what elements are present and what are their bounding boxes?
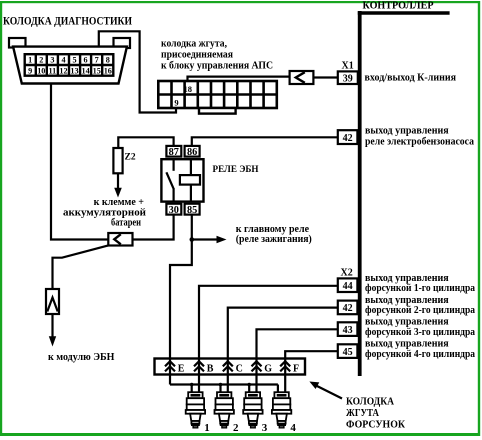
svg-text:E: E [178, 363, 185, 374]
svg-text:8: 8 [106, 56, 110, 65]
svg-text:колодка жгута,: колодка жгута, [161, 39, 227, 50]
svg-text:42: 42 [343, 133, 353, 144]
relay pin 86 [185, 146, 200, 157]
svg-text:4: 4 [290, 422, 296, 434]
junction on pin 85 wire [190, 237, 195, 242]
svg-text:18: 18 [183, 84, 192, 94]
svg-text:42: 42 [343, 303, 353, 314]
relay coil [190, 159, 192, 175]
svg-text:30: 30 [169, 205, 179, 216]
junction bus / injector 3 [247, 383, 251, 387]
svg-text:форсункой 2-го цилиндра: форсункой 2-го цилиндра [365, 305, 475, 316]
svg-text:3: 3 [50, 56, 54, 65]
svg-text:43: 43 [343, 325, 353, 336]
injector 3 [243, 392, 262, 423]
injector 4 [272, 392, 291, 423]
svg-text:батареи: батареи [111, 218, 141, 229]
svg-text:10: 10 [37, 67, 45, 76]
arrow to battery + terminal [114, 188, 122, 198]
direction arrow symbol (K-line) [290, 71, 314, 84]
connector APS harness block [158, 81, 276, 108]
pin 42 controller (fuel pump relay control) [338, 130, 358, 144]
svg-text:9: 9 [28, 67, 32, 76]
injector supply bus [170, 383, 278, 385]
wire: arrow to controller pin 39 [313, 76, 337, 78]
wire: bus to injector 2 supply lead [219, 385, 221, 393]
svg-text:КОЛОДКА ДИАГНОСТИКИ: КОЛОДКА ДИАГНОСТИКИ [3, 14, 133, 28]
pin 45 controller X2 [338, 344, 358, 358]
direction arrow symbol on pin30 supply wire [108, 233, 132, 246]
connector XS1 diagnostic block: left ear [9, 38, 26, 48]
relay switch contact [173, 159, 175, 171]
svg-text:6: 6 [84, 56, 88, 65]
controller outline vertical [358, 11, 362, 376]
wire: bus to injector 3 supply lead [248, 385, 250, 393]
fuse Z2 [113, 148, 122, 173]
svg-text:C: C [236, 363, 243, 374]
svg-text:86: 86 [187, 147, 197, 158]
controller outline top [358, 11, 450, 15]
wire: XS1 pin11 down to K-line arrow [51, 84, 108, 240]
svg-text:87: 87 [169, 147, 179, 158]
pin 44 controller X2 [338, 278, 358, 292]
svg-text:B: B [207, 363, 214, 374]
svg-text:45: 45 [343, 347, 353, 358]
svg-text:13: 13 [70, 67, 78, 76]
svg-text:X2: X2 [341, 268, 353, 279]
relay pin 30 [166, 204, 181, 215]
injector 2 [215, 392, 234, 423]
wire: controller pin 45 to injector 4 rail pin [285, 351, 338, 358]
wire: relay pin 86 to controller pin 42 [192, 137, 338, 146]
connector XS1 diagnostic block: body [13, 47, 127, 84]
border frame bottom [0, 433, 480, 436]
fuse to EBN module [46, 289, 59, 314]
svg-text:39: 39 [343, 74, 353, 85]
wire: APS pin18 to K-line direction arrow [188, 77, 290, 81]
svg-text:44: 44 [343, 281, 353, 292]
injector 1 [186, 392, 205, 423]
svg-text:реле электробензонасоса: реле электробензонасоса [365, 136, 474, 147]
rail pin C [227, 359, 229, 375]
svg-text:выход управления: выход управления [365, 125, 449, 136]
APS block bottom tab [199, 108, 236, 114]
svg-text:F: F [293, 363, 299, 374]
border frame left [0, 1, 2, 436]
svg-text:14: 14 [82, 67, 90, 76]
svg-text:форсункой 1-го цилиндра: форсункой 1-го цилиндра [365, 283, 475, 294]
svg-text:вход/выход К-линия: вход/выход К-линия [365, 72, 457, 83]
wire: controller pin 44 to injector 1 rail pin [199, 286, 338, 359]
wire: controller pin 42 to injector 2 rail pin [228, 308, 338, 359]
wire: branch to main relay with arrow [192, 238, 218, 240]
svg-text:РЕЛЕ ЭБН: РЕЛЕ ЭБН [213, 164, 259, 175]
svg-text:к блоку управления АПС: к блоку управления АПС [161, 60, 273, 71]
svg-text:3: 3 [262, 422, 268, 434]
pin 43 controller X2 [338, 322, 358, 336]
svg-text:форсункой 3-го цилиндра: форсункой 3-го цилиндра [365, 327, 475, 338]
svg-text:X1: X1 [342, 61, 354, 72]
wire: battery fuse Z2 to relay pin 87 [118, 137, 173, 148]
wire: XS1 pin7 top to APS harness block pin 9 [99, 31, 176, 112]
svg-text:15: 15 [93, 67, 101, 76]
wire: rail pin E to injector supply bus [169, 375, 171, 385]
svg-text:Z2: Z2 [125, 153, 136, 163]
relay K1 body [161, 159, 203, 201]
junction bus / injector 2 [219, 383, 223, 387]
pin 39 controller [338, 71, 358, 84]
pin 42 controller X2 [338, 301, 358, 315]
svg-text:к клемме +: к клемме + [94, 197, 145, 208]
svg-text:к модулю ЭБН: к модулю ЭБН [48, 352, 115, 363]
connector injector harness rail [155, 359, 306, 375]
wire: rail pin to injector 4 signal lead [284, 375, 286, 393]
wire: branch to EBN module fuse [53, 245, 109, 289]
arrow pointing to injector rail [315, 385, 342, 399]
svg-text:85: 85 [187, 205, 197, 216]
wire: bus to injector 4 supply lead [277, 385, 279, 393]
svg-text:G: G [264, 363, 272, 374]
svg-text:4: 4 [61, 56, 65, 65]
wire: rail pin to injector 3 signal lead [255, 375, 257, 393]
svg-text:16: 16 [104, 67, 112, 76]
wire: relay pin 85 down to injector rail pin E [170, 215, 192, 359]
svg-text:КОЛОДКА: КОЛОДКА [346, 396, 394, 408]
svg-text:2: 2 [233, 422, 239, 434]
svg-text:7: 7 [95, 56, 99, 65]
svg-text:11: 11 [49, 67, 57, 76]
svg-text:1: 1 [28, 56, 32, 65]
svg-text:ЖГУТА: ЖГУТА [346, 407, 379, 419]
relay pin 85 [185, 204, 200, 215]
junction bus / injector 1 [190, 383, 194, 387]
svg-text:1: 1 [204, 422, 210, 434]
wire: rail pin to injector 2 signal lead [227, 375, 229, 393]
rail pin E [169, 359, 171, 375]
svg-text:(реле зажигания): (реле зажигания) [236, 234, 312, 245]
svg-text:12: 12 [59, 67, 67, 76]
connector XS1 pin grid [25, 54, 114, 75]
wire: fuse Z2 down to battery arrow [117, 173, 119, 188]
rail pin B [198, 359, 200, 375]
wire: rail pin to injector 1 signal lead [198, 375, 200, 393]
border frame top [0, 1, 480, 3]
connector XS1 diagnostic block: right ear [114, 38, 131, 48]
svg-text:9: 9 [174, 97, 178, 107]
svg-text:2: 2 [39, 56, 43, 65]
rail pin G [255, 359, 257, 375]
svg-text:5: 5 [72, 56, 76, 65]
rail pin F [284, 359, 286, 375]
svg-text:КОНТРОЛЛЕР: КОНТРОЛЛЕР [363, 0, 435, 11]
wire: bus to injector 1 supply lead [191, 385, 193, 393]
wire: fuse down to EBN module arrow [51, 314, 53, 337]
wire: arrow box to relay pin 30 [133, 215, 174, 240]
svg-text:присоединяемая: присоединяемая [161, 50, 234, 61]
svg-text:форсункой 4-го цилиндра: форсункой 4-го цилиндра [365, 349, 475, 360]
wire: controller pin 43 to injector 3 rail pin [257, 329, 338, 358]
relay K1 РЕЛЕ ЭБН: pin 87 [166, 146, 181, 157]
border frame right [478, 1, 480, 436]
svg-text:ФОРСУНОК: ФОРСУНОК [346, 418, 405, 430]
